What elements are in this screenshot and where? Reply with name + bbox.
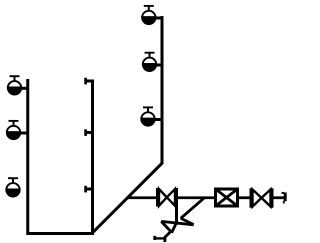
wire: connector L1 to left pipe <box>21 87 28 90</box>
angle valve V2 lower triangle right edge <box>172 222 177 232</box>
angle valve V2 lower triangle left edge <box>161 221 171 231</box>
wire: line square valve to valve3 <box>239 196 252 199</box>
sprinkler head L3 (not connected) <box>6 178 19 196</box>
wire: right riser pipe with 45-degree diagonal down to bottom junction <box>93 16 162 232</box>
wire: tail from valve V2 to drain cap <box>164 231 171 238</box>
wire: line valve3 to end flange <box>273 196 285 199</box>
sprinkler head R1 <box>142 6 155 24</box>
angle valve V2 crossbar <box>161 221 194 224</box>
sprinkler head L2 <box>7 121 20 139</box>
wire: left branch pipe (vertical) with bottom horizontal run <box>28 79 94 234</box>
wire: connector R2 to right pipe <box>156 64 163 67</box>
angle valve V2 upper triangle edge <box>181 218 194 224</box>
wire: 45-degree drain branch from horizontal line <box>181 198 205 219</box>
end flange / hose connection <box>282 192 286 204</box>
wire: middle branch pipe (vertical) <box>91 80 94 234</box>
capped outlet tick 3 on middle pipe <box>86 186 92 193</box>
wire: connector R3 to right pipe <box>154 118 162 121</box>
control valve U1 (square with X) <box>216 189 238 206</box>
wire: horizontal branch line from diagonal to valve train <box>127 196 157 199</box>
wire: line valve1 to square valve <box>177 196 216 199</box>
wire: connector L2 to left pipe <box>20 132 28 135</box>
capped outlet tick 1 on middle pipe <box>86 78 92 85</box>
gate valve V3 (bowtie) <box>251 188 272 207</box>
drain end cap <box>153 236 166 242</box>
gate valve V1 (bowtie) <box>158 188 177 225</box>
wire: connector R1 to right pipe <box>155 17 162 20</box>
capped outlet tick 2 on middle pipe <box>86 129 92 136</box>
sprinkler head L1 <box>8 76 21 94</box>
sprinkler head R2 <box>143 53 156 71</box>
sprinkler head R3 <box>141 107 154 125</box>
